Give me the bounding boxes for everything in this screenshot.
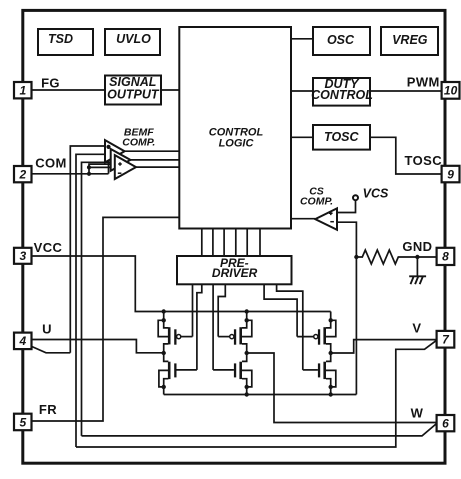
svg-text:DRIVER: DRIVER (212, 266, 258, 280)
svg-text:VREG: VREG (392, 33, 428, 47)
svg-text:2: 2 (18, 167, 26, 181)
svg-text:COM: COM (35, 155, 67, 170)
svg-text:COMP.: COMP. (300, 195, 333, 207)
svg-text:FR: FR (39, 402, 57, 417)
svg-text:VCC: VCC (34, 240, 63, 255)
svg-text:UVLO: UVLO (116, 32, 151, 46)
svg-text:FG: FG (41, 75, 60, 90)
svg-text:PWM: PWM (407, 74, 440, 89)
svg-text:V: V (412, 320, 421, 335)
svg-text:8: 8 (442, 250, 449, 264)
svg-text:GND: GND (402, 239, 432, 254)
svg-text:LOGIC: LOGIC (219, 137, 255, 149)
svg-text:4: 4 (18, 334, 26, 348)
svg-text:COMP.: COMP. (122, 136, 155, 148)
svg-text:TOSC: TOSC (324, 130, 359, 144)
svg-text:TOSC: TOSC (405, 153, 443, 168)
svg-text:OUTPUT: OUTPUT (107, 88, 160, 102)
svg-text:W: W (411, 405, 424, 420)
svg-text:CONTROL: CONTROL (311, 88, 373, 102)
svg-text:6: 6 (442, 416, 449, 430)
svg-text:10: 10 (444, 84, 458, 98)
svg-text:5: 5 (19, 415, 26, 429)
svg-text:U: U (42, 321, 52, 336)
svg-text:TSD: TSD (48, 32, 73, 46)
svg-text:3: 3 (19, 249, 26, 263)
svg-text:9: 9 (447, 167, 454, 181)
svg-text:OSC: OSC (327, 33, 355, 47)
svg-text:VCS: VCS (363, 187, 389, 201)
svg-text:1: 1 (19, 84, 26, 98)
